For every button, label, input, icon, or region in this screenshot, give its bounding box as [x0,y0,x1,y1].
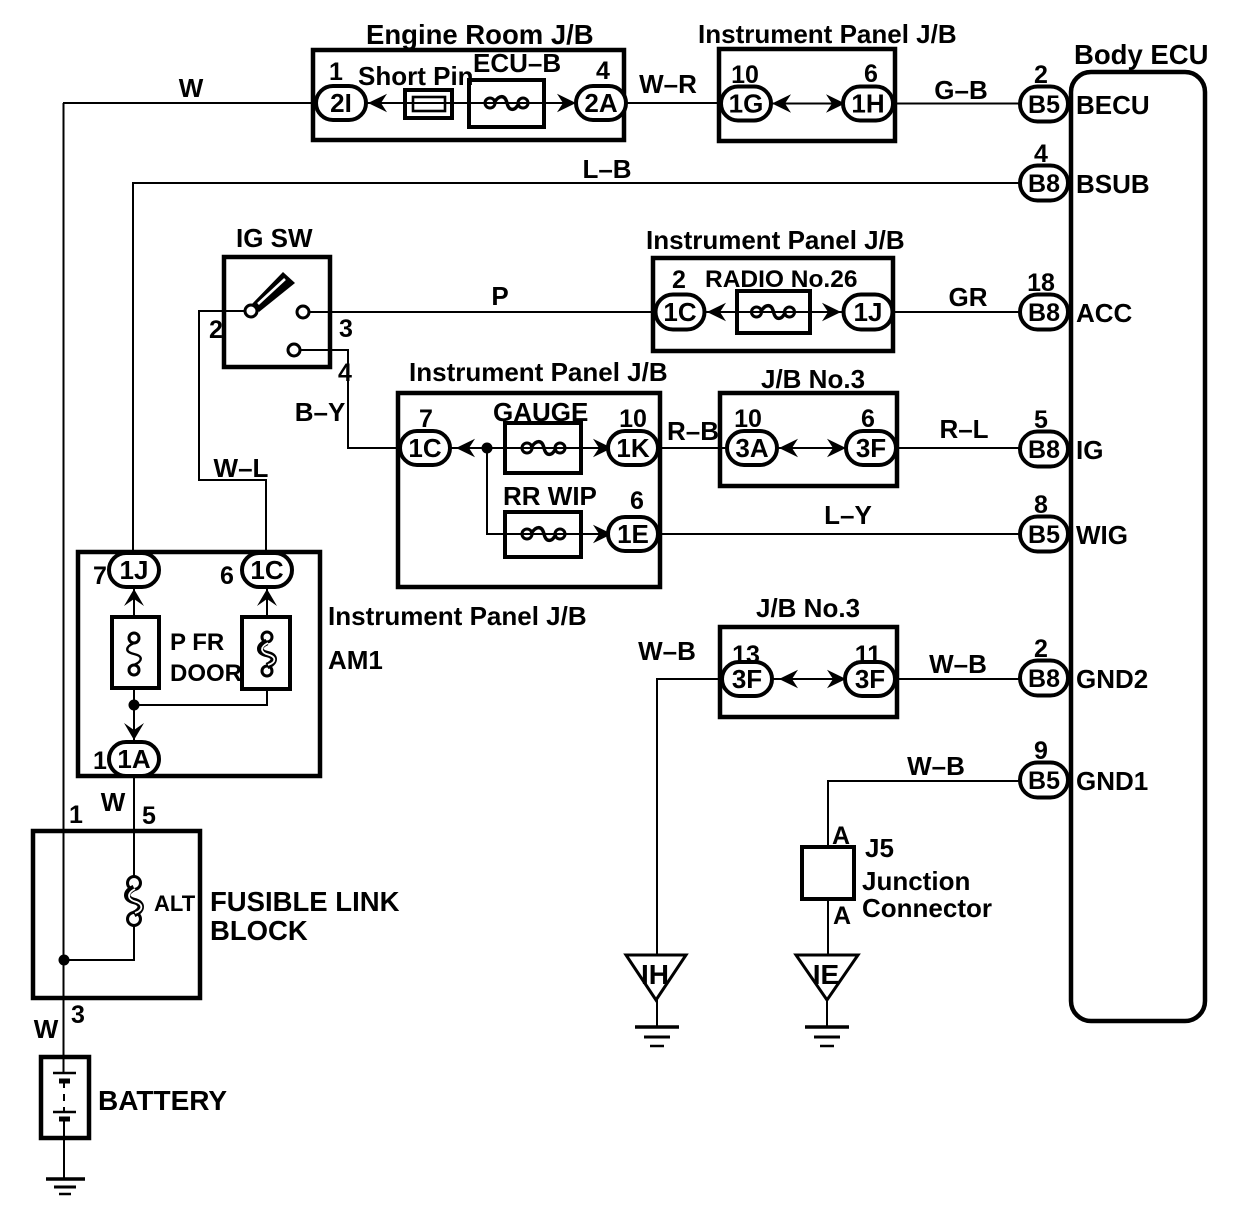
svg-text:J/B No.3: J/B No.3 [756,593,860,623]
connector B8 (ACC) [1020,295,1068,330]
svg-text:1E: 1E [617,519,649,549]
connector pin 1C-radio [656,295,705,330]
svg-text:J5: J5 [865,833,894,863]
wire G-B: 1H to Body ECU BECU [893,103,1021,105]
svg-text:1J: 1J [854,297,883,327]
svg-text:A: A [832,822,850,850]
svg-text:W–B: W–B [638,636,696,666]
wire: gauge 1C to junction and GAUGE fuse [450,447,609,449]
wire: AM1 fusible link bottom joining 1A feed [134,689,267,705]
svg-text:B8: B8 [1028,170,1060,198]
fuse RADIO No.26 [737,291,810,333]
wire: IH triangle to ground symbol [656,1000,658,1027]
wire: branch from gauge junction down to RR WIP fuse [487,448,609,534]
arrow into 1G [772,94,791,112]
arrow into radio 1J [822,303,841,321]
svg-text:ALT: ALT [154,891,196,916]
svg-text:RADIO No.26: RADIO No.26 [705,266,857,293]
svg-text:6: 6 [630,487,644,515]
connector B5 (GND1) [1020,763,1068,798]
connector pin 3F-br [845,662,895,696]
wire W-B: J/B No.3 3F run left and down to ground IH [657,679,722,955]
connector pin 3A [727,431,777,465]
arrow into right 3F [827,670,846,688]
battery [41,1057,89,1138]
svg-text:ECU–B: ECU–B [473,48,561,78]
svg-text:W–B: W–B [929,649,987,679]
svg-text:Instrument Panel J/B: Instrument Panel J/B [646,225,905,255]
wire: battery negative to ground [63,1119,65,1179]
junction block: J/B No.3 (bottom) [720,627,897,717]
svg-text:DOOR: DOOR [170,660,242,687]
svg-text:6: 6 [220,562,234,590]
svg-text:IG: IG [1076,435,1103,465]
wire R-L: 3F to Body ECU IG [896,447,1021,449]
wire: IE triangle to ground symbol [826,1000,828,1027]
connector B5 (BECU) [1020,87,1068,122]
wire B-Y: IG SW pin 4 down to gauge 1C [300,350,401,448]
wire R-B: 1K to J/B No.3 3A [658,447,728,449]
wire: AM1 1J down to P FR DOOR breaker [133,587,135,617]
svg-text:18: 18 [1027,269,1055,297]
svg-text:WIG: WIG [1076,520,1128,550]
svg-text:1H: 1H [851,89,884,119]
svg-text:7: 7 [419,405,433,433]
connector pin 3F-bl [722,662,772,696]
svg-text:1K: 1K [616,433,649,463]
svg-text:W–B: W–B [907,751,965,781]
svg-text:B8: B8 [1028,299,1060,327]
svg-text:10: 10 [619,405,647,433]
arrow into 3F [827,439,846,457]
connector B8 (GND2) [1020,661,1068,696]
svg-text:J/B No.3: J/B No.3 [761,364,865,394]
ground symbol (IE) [805,1027,849,1046]
svg-text:Short Pin: Short Pin [358,61,474,91]
svg-text:Instrument Panel J/B: Instrument Panel J/B [698,19,957,49]
fuse GAUGE [505,423,581,473]
connector pin 3F-top [846,431,896,465]
junction block: J/B No.3 (top) [720,393,897,486]
svg-text:GAUGE: GAUGE [493,397,588,427]
junction node: gauge feed split [482,443,493,454]
wire L-B: Body ECU BSUB run left and down to AM1 1J [133,183,1021,554]
wire: J/B No.3 internal 3F to 3F [771,678,846,680]
block: FUSIBLE LINK BLOCK [33,831,200,998]
svg-text:B–Y: B–Y [295,397,346,427]
svg-text:BLOCK: BLOCK [210,915,308,946]
svg-text:7: 7 [93,562,107,590]
connector pin 1C-gauge [400,431,450,465]
svg-text:1C: 1C [250,555,283,585]
svg-text:4: 4 [338,359,352,387]
ECU: Body ECU [1071,72,1205,1021]
svg-text:13: 13 [732,641,760,669]
svg-text:2: 2 [209,316,223,344]
svg-text:P: P [491,281,508,311]
svg-text:RR WIP: RR WIP [503,481,597,511]
arrow up into 1C [257,589,277,606]
connector pin 1K [608,431,658,465]
svg-text:L–Y: L–Y [824,500,872,530]
svg-text:L–B: L–B [582,154,631,184]
svg-text:3A: 3A [735,433,768,463]
svg-text:2I: 2I [330,88,352,118]
wire W-R: Engine Room J/B 2A to Instrument Panel J/B 1G [626,102,721,104]
svg-text:BATTERY: BATTERY [98,1085,227,1116]
arrow into left 3F [779,670,798,688]
connector pin 2I [316,86,366,120]
ground (battery) [46,1179,85,1194]
svg-text:1A: 1A [117,744,150,774]
svg-text:6: 6 [864,60,878,88]
wire: J5 to ground IE [827,899,829,955]
wire W: left vertical run from top corner down through fusible link block to battery [63,103,65,1073]
svg-text:Junction: Junction [862,866,970,896]
connector pin 1C-am1 [242,553,292,587]
svg-text:IG SW: IG SW [236,223,313,253]
wire W-B: 3F to Body ECU GND2 [894,678,1021,680]
svg-text:FUSIBLE LINK: FUSIBLE LINK [210,886,400,917]
switch terminal 3 [297,306,309,318]
wire: battery internal dashed centre [63,1081,65,1112]
svg-text:B5: B5 [1028,521,1060,549]
connector pin 2A [576,86,626,120]
svg-text:ACC: ACC [1076,298,1133,328]
svg-text:10: 10 [731,61,759,89]
svg-text:4: 4 [1034,140,1048,168]
svg-text:Engine Room J/B: Engine Room J/B [366,19,594,50]
arrow into 2I [368,94,387,112]
wire: AM1 1C down to AM1 fusible link [266,587,268,617]
svg-text:3F: 3F [856,433,886,463]
svg-text:W–R: W–R [639,69,697,99]
ground point IH [626,955,686,1000]
wire GR: radio 1J to Body ECU ACC [892,311,1021,313]
connector pin 1G [721,87,771,121]
svg-text:Body ECU: Body ECU [1074,39,1208,70]
junction block: Instrument Panel J/B (AM1) [78,552,320,776]
fusible link ALT [128,877,141,890]
svg-text:G–B: G–B [934,75,987,105]
svg-text:5: 5 [1034,406,1048,434]
switch IG SW [224,257,330,367]
fuse RR WIP [505,512,581,557]
svg-text:2: 2 [1034,61,1048,89]
svg-text:1: 1 [329,58,343,86]
junction node: AM1 internal join [129,700,140,711]
wire: internal link 1G to 1H [772,103,845,105]
svg-text:AM1: AM1 [328,645,383,675]
svg-text:9: 9 [1034,737,1048,765]
fuse ECU-B [469,80,544,127]
wire: P FR DOOR breaker down to 1A [133,688,135,743]
svg-text:R–L: R–L [939,414,988,444]
arrow into 1H [826,94,845,112]
svg-text:1C: 1C [408,433,441,463]
svg-text:GR: GR [949,282,988,312]
switch terminal 4 [288,344,300,356]
svg-text:W: W [179,73,204,103]
wire: IG SW pin 2 to AM1 1C (W-L) [199,311,266,554]
svg-text:B5: B5 [1028,91,1060,119]
svg-text:A: A [833,902,851,930]
svg-text:P FR: P FR [170,629,224,656]
svg-text:1C: 1C [663,297,696,327]
wire L-Y: 1E to Body ECU WIG [658,533,1021,535]
svg-text:11: 11 [855,641,882,669]
arrow down into 1A [124,723,144,740]
svg-text:3: 3 [71,1001,85,1029]
wire: ALT link bottom to junction on main W feed [64,925,134,960]
ground symbol (IH) [635,1027,679,1046]
svg-text:B5: B5 [1028,767,1060,795]
switch lever [252,272,295,312]
junction block: Engine Room J/B [313,50,624,140]
svg-text:Instrument Panel J/B: Instrument Panel J/B [328,601,587,631]
svg-text:GND2: GND2 [1076,664,1148,694]
junction node: fusible link block internal join [59,955,70,966]
arrow into 1K [593,439,612,457]
ground point IE [796,955,858,1000]
svg-text:IH: IH [641,959,669,990]
switch terminal 2 [245,305,257,317]
svg-text:IE: IE [813,959,839,990]
wire W: battery feed, top horizontal run to Engine Room J/B pin 2I [63,102,316,104]
svg-text:W–L: W–L [214,453,269,483]
connector pin 1J-am1 [109,553,159,587]
wire: J/B No.3 internal 3A to 3F [777,447,846,449]
svg-text:Connector: Connector [862,893,992,923]
svg-text:2A: 2A [584,88,617,118]
arrow up into 1J [124,589,144,606]
arrow into 1E [593,525,612,543]
junction block: Instrument Panel J/B (radio) [653,258,893,351]
svg-text:6: 6 [861,405,875,433]
svg-text:1J: 1J [120,555,149,585]
junction block: Instrument Panel J/B (gauge) [398,393,660,587]
connector B8 (BSUB) [1020,166,1068,201]
svg-text:W: W [34,1014,59,1044]
junction block: Instrument Panel J/B (top) [719,49,895,141]
svg-text:4: 4 [596,57,610,85]
svg-text:Instrument Panel J/B: Instrument Panel J/B [409,357,668,387]
svg-text:1G: 1G [729,89,764,119]
svg-text:R–B: R–B [667,416,719,446]
svg-text:8: 8 [1034,491,1048,519]
wire: radio internal 1C to 1J through fuse [704,311,844,313]
arrow into gauge 1C [456,439,475,457]
connector pin 1H [843,87,893,121]
arrow into 3A [779,439,798,457]
arrow into 2A [557,94,576,112]
wire W: AM1 1A down to fusible link block pin 5 and ALT link [133,776,135,877]
connector B8 (IG) [1020,432,1068,467]
svg-text:B8: B8 [1028,436,1060,464]
connector B5 (WIG) [1020,517,1068,552]
circuit breaker P FR DOOR [112,617,159,688]
svg-text:B8: B8 [1028,665,1060,693]
svg-text:2: 2 [672,266,686,294]
svg-text:10: 10 [734,405,762,433]
wire: Engine Room J/B internal 2I through short pin and ECU-B fuse to 2A [366,102,577,104]
svg-text:1: 1 [93,747,107,775]
svg-text:2: 2 [1034,635,1048,663]
svg-text:W: W [101,787,126,817]
svg-text:1: 1 [69,801,83,829]
arrow into radio 1C [707,303,726,321]
svg-text:GND1: GND1 [1076,766,1148,796]
connector pin 1J-radio [844,295,893,330]
svg-text:3: 3 [339,315,353,343]
connector pin 1A [109,742,159,776]
wire W-B: Body ECU GND1 run left and down to J5 [828,781,1021,847]
junction connector J5 [802,847,854,899]
svg-text:5: 5 [142,802,156,830]
svg-text:BECU: BECU [1076,90,1150,120]
svg-text:BSUB: BSUB [1076,169,1150,199]
connector pin 1E [608,517,658,551]
fusible link AM1 [242,617,290,689]
short pin component [405,90,452,118]
wire P: IG SW pin 3 to radio 1C [308,311,656,313]
